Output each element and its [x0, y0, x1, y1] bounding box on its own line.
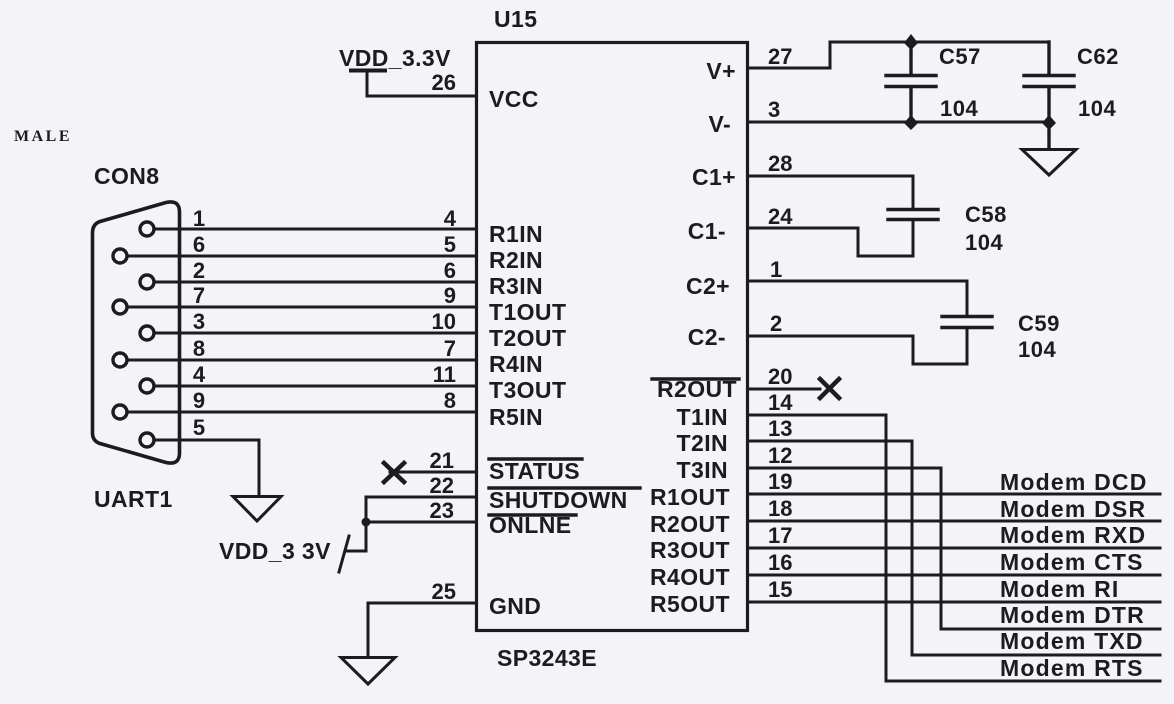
svg-text:STATUS: STATUS [489, 458, 580, 484]
junction C62 bottom [1042, 115, 1056, 130]
connector CON8 DB9 outline [93, 202, 180, 463]
wire CON8 pin3 to U15 pin10 T2OUT [154, 332, 476, 335]
svg-text:3: 3 [193, 309, 205, 334]
svg-text:4: 4 [444, 206, 457, 231]
CON8 pin 1 circle [140, 222, 154, 236]
svg-text:VDD_3.3V: VDD_3.3V [339, 45, 451, 71]
svg-text:T2IN: T2IN [677, 430, 728, 456]
svg-text:C58: C58 [965, 202, 1007, 227]
wire pin 24 C1- [748, 220, 913, 256]
svg-text:C2+: C2+ [686, 273, 730, 299]
svg-text:T3IN: T3IN [677, 457, 728, 483]
overline SHUTDOWN [489, 486, 640, 489]
svg-text:25: 25 [432, 579, 456, 604]
ground symbol (CON8 pin5) [233, 497, 281, 522]
svg-text:Modem RTS: Modem RTS [1000, 655, 1144, 681]
wire pin 27 V+ to caps [748, 42, 1049, 68]
svg-text:V-: V- [708, 111, 731, 137]
svg-text:3: 3 [768, 97, 780, 122]
wire CON8 pin4 to U15 pin11 T3OUT [154, 385, 476, 388]
svg-text:26: 26 [432, 70, 456, 95]
svg-text:17: 17 [768, 523, 792, 548]
no-connect X on pin 20 [820, 379, 839, 398]
wire pin 3 V- to caps [748, 121, 1049, 124]
svg-text:MALE: MALE [14, 128, 72, 145]
capacitor C62 [1024, 42, 1074, 149]
power tap slash mark [339, 536, 349, 572]
ground symbol (U15 GND) [341, 658, 395, 685]
svg-text:14: 14 [768, 390, 793, 415]
svg-text:R4IN: R4IN [489, 351, 543, 377]
svg-text:16: 16 [768, 550, 792, 575]
power symbol VDD_3.3V (top) [351, 70, 385, 96]
svg-text:R2IN: R2IN [489, 247, 543, 273]
CON8 pin 5 circle [140, 433, 154, 447]
svg-text:Modem RI: Modem RI [1000, 576, 1120, 602]
svg-text:T2OUT: T2OUT [489, 325, 566, 351]
svg-text:R1IN: R1IN [489, 221, 543, 247]
capacitor C58 [888, 210, 938, 220]
wire pin 2 C2- [748, 328, 967, 364]
svg-text:7: 7 [444, 336, 456, 361]
svg-text:R2OUT: R2OUT [650, 511, 730, 537]
capacitor C57 [886, 42, 936, 122]
IC U15 body (SP3243E) [477, 43, 748, 631]
wire CON8 pin2 to U15 pin6 R3IN [154, 281, 476, 284]
overline STATUS [489, 457, 582, 460]
svg-text:7: 7 [193, 283, 205, 308]
svg-text:104: 104 [965, 230, 1003, 255]
junction C57 top [904, 34, 918, 50]
ground symbol (below C62) [1022, 150, 1076, 176]
svg-text:Modem DCD: Modem DCD [1000, 469, 1148, 495]
wire pin 13 T2IN to Modem TXD [748, 441, 1160, 655]
CON8 pin 9 circle [113, 405, 127, 419]
svg-text:20: 20 [768, 364, 792, 389]
svg-text:T1IN: T1IN [677, 404, 728, 430]
wire pin 26 VCC [367, 95, 476, 98]
wire CON8 pin6 to U15 pin5 R2IN [127, 255, 476, 258]
svg-text:Modem DSR: Modem DSR [1000, 496, 1146, 522]
svg-text:2: 2 [193, 258, 205, 283]
wire pin 28 C1+ [748, 176, 913, 209]
svg-text:11: 11 [433, 362, 456, 387]
svg-text:C1-: C1- [688, 218, 726, 244]
svg-text:5: 5 [193, 415, 205, 440]
wire CON8 pin1 to U15 pin4 R1IN [154, 228, 476, 231]
svg-text:Modem TXD: Modem TXD [1000, 628, 1144, 654]
junction dot pins 22/23 [362, 518, 371, 527]
wire pin 23 ONLNE [366, 521, 476, 524]
svg-text:T3OUT: T3OUT [489, 377, 566, 403]
svg-text:9: 9 [193, 388, 205, 413]
svg-text:104: 104 [1018, 337, 1056, 362]
svg-text:104: 104 [1078, 96, 1116, 121]
svg-text:VDD_3 3V: VDD_3 3V [219, 538, 331, 564]
svg-text:SHUTDOWN: SHUTDOWN [489, 487, 628, 513]
wire pin 15 R5OUT Modem RI [748, 601, 1160, 604]
svg-text:R5IN: R5IN [489, 404, 543, 430]
svg-text:15: 15 [768, 577, 792, 602]
svg-text:9: 9 [444, 283, 456, 308]
wire pin 12 T3IN to Modem DTR [748, 468, 1160, 629]
wire CON8 pin7 to U15 pin9 T1OUT [127, 306, 476, 309]
svg-text:C1+: C1+ [692, 164, 736, 190]
svg-text:23: 23 [430, 498, 454, 523]
CON8 pin 3 circle [140, 326, 154, 340]
svg-text:T1OUT: T1OUT [489, 299, 566, 325]
svg-text:R1OUT: R1OUT [650, 484, 730, 510]
power tap VDD_3.3V (lower) [345, 550, 366, 553]
svg-text:12: 12 [768, 443, 792, 468]
svg-text:V+: V+ [706, 58, 736, 84]
svg-text:13: 13 [768, 416, 792, 441]
svg-text:8: 8 [193, 336, 205, 361]
svg-text:104: 104 [940, 96, 978, 121]
svg-text:Modem RXD: Modem RXD [1000, 522, 1146, 548]
svg-text:28: 28 [768, 151, 792, 176]
svg-text:R3OUT: R3OUT [650, 537, 730, 563]
junction C57 bottom [904, 115, 918, 130]
wire CON8 pin9 to U15 pin8 R5IN [127, 411, 476, 414]
svg-text:Modem DTR: Modem DTR [1000, 602, 1145, 628]
svg-text:VCC: VCC [489, 86, 539, 112]
overline R2OUT [652, 377, 739, 380]
svg-text:R5OUT: R5OUT [650, 591, 730, 617]
svg-text:8: 8 [444, 388, 456, 413]
svg-text:R4OUT: R4OUT [650, 564, 730, 590]
svg-text:4: 4 [193, 362, 206, 387]
wire pin 14 T1IN to Modem RTS [748, 415, 1160, 681]
svg-text:10: 10 [432, 309, 456, 334]
wire pin 16 R4OUT Modem CTS [748, 574, 1160, 577]
svg-text:22: 22 [430, 473, 454, 498]
capacitor C59 [942, 317, 992, 328]
svg-text:18: 18 [768, 496, 792, 521]
wire CON8 pin8 to U15 pin7 R4IN [127, 359, 476, 362]
wire pin 18 R2OUT Modem DSR [748, 520, 1160, 523]
svg-text:UART1: UART1 [94, 486, 173, 512]
CON8 pin 6 circle [113, 249, 127, 263]
svg-text:SP3243E: SP3243E [497, 645, 597, 671]
svg-text:6: 6 [444, 258, 456, 283]
svg-text:C57: C57 [939, 44, 981, 69]
wire pin 21 STATUS [390, 471, 476, 474]
svg-text:C62: C62 [1077, 44, 1119, 69]
svg-text:24: 24 [768, 204, 793, 229]
CON8 pin 4 circle [140, 379, 154, 393]
wire pin 22 SHUTDOWN [366, 497, 476, 551]
svg-text:2: 2 [770, 311, 782, 336]
wire pin 17 R3OUT Modem RXD [748, 547, 1160, 550]
no-connect X on pin 21 [384, 463, 404, 482]
wire pin 1 C2+ [748, 281, 967, 316]
wire pin 25 GND [368, 603, 476, 657]
svg-text:R3IN: R3IN [489, 273, 543, 299]
svg-text:C59: C59 [1018, 311, 1060, 336]
CON8 pin 7 circle [113, 300, 127, 314]
CON8 pin 2 circle [140, 275, 154, 289]
svg-text:5: 5 [444, 232, 456, 257]
wire pin 19 R1OUT Modem DCD [748, 493, 1160, 496]
svg-text:1: 1 [770, 257, 782, 282]
overline ONLNE [489, 513, 576, 516]
svg-text:C2-: C2- [688, 324, 726, 350]
svg-text:Modem CTS: Modem CTS [1000, 549, 1144, 575]
wire CON8 pin5 to ground [154, 440, 259, 496]
wire pin 20 R2OUT no-connect [748, 388, 820, 391]
svg-text:1: 1 [193, 206, 205, 231]
svg-text:6: 6 [193, 232, 205, 257]
CON8 pin 8 circle [113, 353, 127, 367]
svg-text:21: 21 [430, 448, 454, 473]
svg-text:27: 27 [768, 44, 792, 69]
svg-text:U15: U15 [494, 6, 537, 32]
svg-text:GND: GND [489, 593, 541, 619]
svg-text:19: 19 [768, 469, 792, 494]
svg-text:CON8: CON8 [94, 163, 160, 189]
